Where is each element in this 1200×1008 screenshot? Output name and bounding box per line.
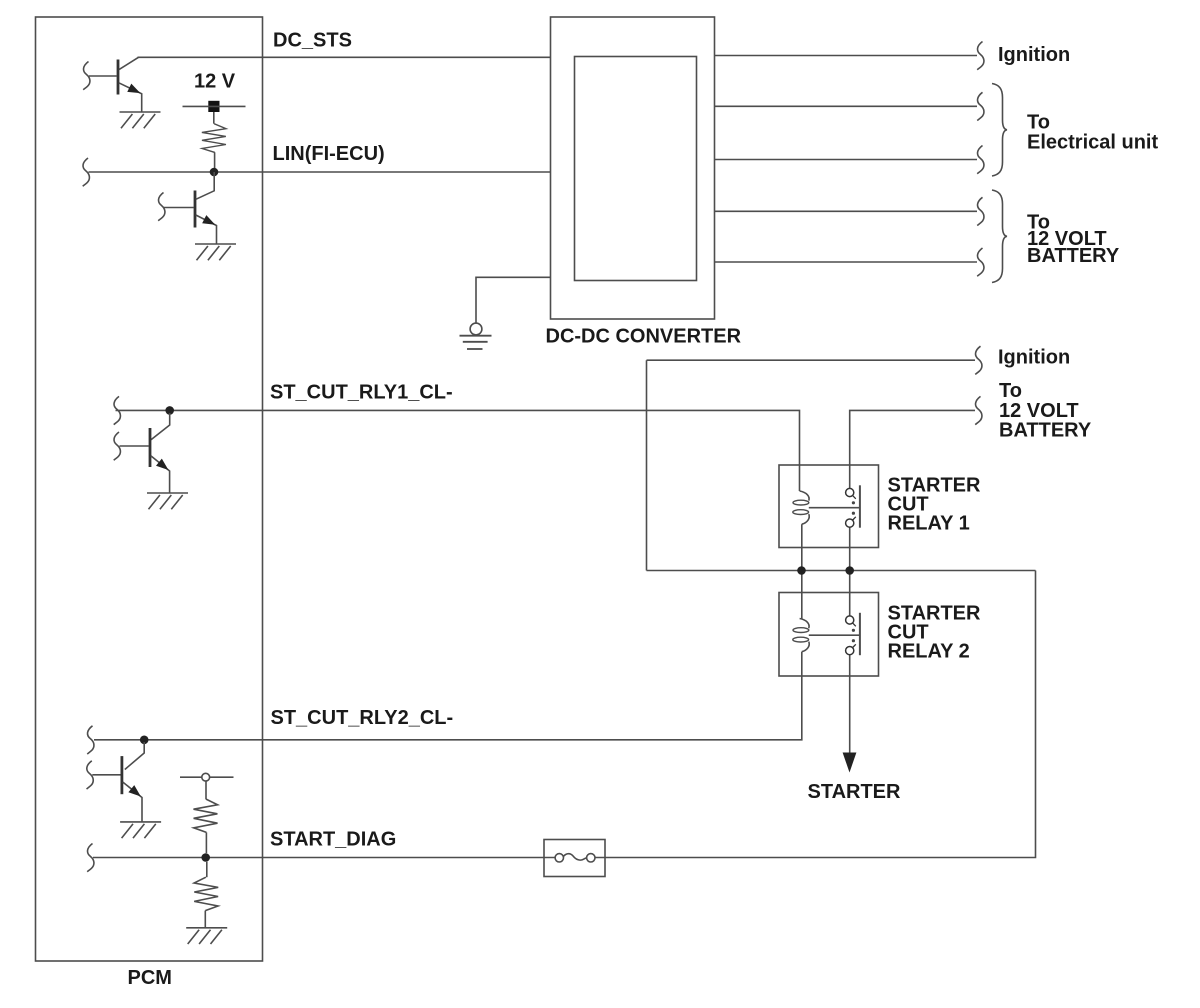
relay RLY2 internals: [793, 613, 860, 655]
wire junction to relay2 switch: [849, 571, 851, 616]
svg-text:START_DIAG: START_DIAG: [270, 829, 396, 851]
node junction dot left: [797, 566, 806, 575]
wire junction to relay2 coil: [801, 571, 803, 619]
svg-text:To: To: [1027, 112, 1050, 134]
squiggle electrical 1: [977, 92, 984, 120]
fuse element wave: [564, 854, 587, 860]
svg-text:STARTER: STARTER: [808, 781, 902, 803]
svg-text:Ignition: Ignition: [998, 346, 1070, 368]
transistor Q3 base bar: [149, 428, 152, 467]
relay 2 box: [779, 593, 879, 677]
wire ST_CUT_RLY2_CL-: [94, 652, 802, 740]
12 V terminal: [208, 101, 219, 112]
transistor Q1 base squiggle: [83, 62, 90, 90]
pull-up terminal circle: [202, 773, 210, 781]
svg-text:ST_CUT_RLY1_CL-: ST_CUT_RLY1_CL-: [270, 382, 453, 404]
fuse box: [544, 840, 605, 877]
wire converter out battery 1: [715, 210, 978, 212]
wire relay1 coil to junction: [801, 524, 803, 570]
12 V terminal line: [183, 105, 246, 107]
wire Ignition 2: [647, 359, 976, 361]
svg-text:DC_STS: DC_STS: [273, 30, 352, 52]
transistor Q2 base wire: [164, 207, 194, 209]
resistor R2 pull-up: [205, 781, 207, 799]
squiggle battery 2: [977, 248, 984, 276]
wire converter ground tap: [476, 277, 551, 323]
wire converter out Ignition: [715, 55, 978, 57]
node RLY2 junction: [140, 736, 149, 745]
fuse contact right: [587, 854, 595, 862]
svg-text:BATTERY: BATTERY: [999, 419, 1092, 441]
transistor Q1 emitter arrow: [127, 84, 142, 98]
ground R3: [186, 928, 227, 944]
svg-text:PCM: PCM: [128, 967, 172, 989]
squiggle battery right: [975, 396, 982, 424]
DC-DC converter outer box: [551, 17, 715, 319]
squiggle electrical 2: [977, 146, 984, 174]
transistor Q3 ground: [147, 493, 188, 509]
wire converter out electrical 1: [715, 105, 978, 107]
transistor Q1 base bar: [117, 60, 120, 95]
transistor Q4 emitter arrow: [128, 785, 143, 800]
wire RLY1 squiggle: [114, 396, 121, 424]
wire converter out battery 2: [715, 261, 978, 263]
brace electrical unit: [992, 84, 1007, 177]
transistor Q4 base squiggle: [87, 761, 94, 789]
svg-text:ST_CUT_RLY2_CL-: ST_CUT_RLY2_CL-: [271, 707, 454, 729]
resistor R1: [213, 112, 215, 124]
wire LIN(FI-ECU): [89, 171, 551, 173]
node START_DIAG junction: [201, 853, 210, 862]
relay RLY1 internals: [793, 485, 860, 527]
svg-text:RELAY 2: RELAY 2: [888, 641, 970, 663]
squiggle ignition out: [977, 42, 984, 70]
wire LIN squiggle: [83, 158, 90, 186]
squiggle battery 1: [977, 197, 984, 225]
transistor Q3 base squiggle: [114, 432, 121, 460]
DC-DC converter inner box: [575, 57, 697, 281]
transistor Q2 base bar: [194, 191, 197, 228]
earth ground circle: [470, 323, 482, 335]
svg-text:BATTERY: BATTERY: [1027, 245, 1120, 267]
relay 1 box: [779, 465, 879, 548]
transistor Q2 ground: [195, 244, 236, 260]
transistor Q2 base squiggle: [158, 193, 165, 221]
svg-text:Ignition: Ignition: [998, 44, 1070, 66]
squiggle ignition 2: [975, 346, 982, 374]
wire relay1 switch to junction: [849, 527, 851, 570]
wire START_DIAG squiggle: [87, 844, 94, 872]
svg-text:RELAY 1: RELAY 1: [888, 513, 970, 535]
wire converter out electrical 2: [715, 159, 978, 161]
transistor Q1 collector: [119, 57, 139, 69]
wire DC_STS: [138, 56, 551, 58]
transistor Q2 collector: [196, 172, 214, 199]
wire relay2 switch to starter arrow: [849, 655, 851, 754]
transistor Q1 emitter: [119, 83, 142, 112]
PCM box: [36, 17, 263, 961]
svg-text:DC-DC CONVERTER: DC-DC CONVERTER: [546, 326, 742, 348]
transistor Q4 collector: [125, 742, 144, 770]
transistor Q2 emitter: [196, 215, 217, 244]
fuse contact left: [555, 854, 563, 862]
transistor Q1 base wire: [89, 75, 117, 77]
wire START_DIAG: [93, 857, 555, 859]
brace 12 volt battery: [992, 190, 1007, 283]
transistor Q2 emitter arrow: [202, 215, 217, 229]
resistor R3 pull-down: [206, 862, 208, 877]
wire right vertical to START_DIAG: [595, 571, 1036, 858]
transistor Q1 ground: [120, 112, 161, 128]
transistor Q3 base wire: [120, 445, 149, 447]
transistor Q4 emitter: [123, 782, 142, 822]
svg-text:LIN(FI-ECU): LIN(FI-ECU): [273, 143, 385, 165]
svg-text:12 V: 12 V: [194, 71, 236, 93]
node RLY1 junction: [165, 406, 174, 415]
transistor Q4 ground: [120, 822, 161, 838]
wire RLY2 squiggle: [87, 726, 94, 754]
earth ground bars: [460, 336, 492, 349]
starter arrow: [843, 753, 857, 773]
svg-text:To: To: [999, 380, 1022, 402]
transistor Q3 emitter: [151, 456, 170, 493]
transistor Q3 collector: [151, 413, 170, 440]
transistor Q4 base bar: [121, 756, 124, 794]
svg-text:Electrical unit: Electrical unit: [1027, 132, 1158, 154]
pull-up terminal line: [180, 776, 234, 778]
wire vertical ignition to junction: [646, 360, 648, 570]
wire ST_CUT_RLY1_CL-: [116, 410, 800, 491]
wire junction line: [647, 570, 1036, 572]
transistor Q3 emitter arrow: [156, 459, 171, 474]
transistor Q4 base wire: [92, 774, 120, 776]
node LIN junction: [210, 168, 219, 177]
wire To 12V battery 2: [850, 410, 975, 488]
node junction dot right: [845, 566, 854, 575]
